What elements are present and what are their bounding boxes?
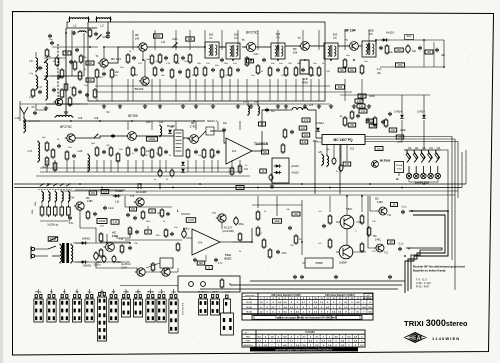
t14 to psu wire (80, 210, 96, 243)
connector 15 V (210, 295, 219, 316)
resistor R75 (384, 118, 388, 128)
fm pull wire 3 (175, 121, 177, 130)
coil L2 (96, 18, 112, 19)
drop wire 7 (175, 79, 177, 101)
capacitor det1 (379, 46, 383, 50)
IF rail mid (95, 91, 330, 93)
svg-text:FM (ohne Signal U=/133V): FM (ohne Signal U=/133V) (325, 294, 354, 297)
fuse diagonal (49, 237, 58, 242)
trimmer L6 slug (44, 59, 48, 63)
connector MNEM (146, 295, 155, 323)
svg-text:LP: LP (165, 270, 168, 272)
pullup wire 9 (277, 30, 279, 50)
F8 winding segment 1 (176, 132, 182, 134)
fuse 20mA (48, 237, 58, 241)
lamp L5 (435, 173, 440, 178)
svg-text:100u: 100u (377, 149, 383, 151)
svg-text:L16: L16 (15, 116, 20, 120)
capacitor C27 (194, 150, 198, 154)
capacitor C60 (38, 90, 42, 94)
F8 winding segment 3 (176, 139, 182, 141)
drop wire 1 (96, 79, 98, 101)
connector feed 7 (113, 289, 115, 294)
capacitor C18 (276, 68, 280, 72)
IF box inner bottom rail (20, 103, 330, 105)
drop wire 25 (361, 79, 363, 101)
connector on/off (224, 299, 231, 313)
diode AA119 b (113, 194, 121, 198)
svg-text:0A95: 0A95 (369, 95, 375, 98)
svg-text:560: 560 (338, 85, 343, 89)
bundle wire 3 (406, 248, 442, 289)
junction dot 12 (353, 59, 355, 61)
reg out (116, 230, 130, 238)
coil L16 (24, 118, 26, 134)
junction dot 9 (277, 59, 279, 61)
lamp L2 (414, 173, 419, 178)
resistor R59 (256, 210, 260, 221)
svg-text:220uA: 220uA (396, 164, 403, 167)
svg-text:1N914: 1N914 (394, 110, 402, 114)
lamp L1 (406, 173, 411, 178)
resistor 100 b (130, 207, 137, 211)
IF transformer F2 (226, 43, 240, 59)
resistor R51 (343, 116, 347, 127)
svg-text:AA119: AA119 (115, 190, 123, 193)
capacitor 0,22u (103, 206, 107, 210)
junction dot 10 (304, 59, 306, 61)
svg-text:L18: L18 (94, 116, 99, 120)
wire L8 rail (35, 52, 37, 56)
junction dot 15 (443, 66, 445, 68)
transistor T2 (137, 43, 147, 51)
capacitor C56 (135, 230, 139, 234)
resistor 220 7,5W box (395, 162, 404, 173)
resistor R11 (126, 53, 130, 64)
svg-text:1A (B): 1A (B) (246, 301, 252, 304)
resistor R79 (31, 88, 35, 98)
junction dot 11 (330, 59, 332, 61)
cap in filter box 2 (201, 282, 206, 287)
signal path F8-T9 (183, 137, 189, 139)
resistor R54 (141, 210, 145, 220)
capacitor C51 (50, 41, 54, 45)
junction dot 16 (23, 120, 25, 122)
coil osc small (78, 31, 88, 32)
wire T1 emitter (103, 67, 105, 70)
svg-text:0,22u: 0,22u (108, 208, 114, 210)
fm drop wire 19 (211, 160, 213, 172)
fm bottom rail 3 (40, 167, 230, 169)
wire F1-F2 link (219, 46, 226, 48)
main tuner bus (25, 120, 205, 122)
wire vol rail (125, 239, 182, 241)
tuning unit lead 5 (67, 201, 69, 205)
svg-text:2A (B): 2A (B) (246, 306, 252, 309)
driver box R5a (160, 258, 173, 268)
coil L8 (36, 57, 38, 73)
resistor R36 (53, 161, 57, 172)
transformer TR1 secondary (71, 244, 73, 264)
svg-text:1M: 1M (392, 204, 395, 207)
svg-text:6,8u: 6,8u (69, 223, 74, 225)
wire tuner riser (19, 101, 21, 121)
capacitor C33 (93, 212, 97, 216)
junction dot 21 (193, 120, 195, 122)
air coil L23 (292, 107, 308, 110)
junction dot 29 (257, 187, 259, 189)
svg-text:100n: 100n (396, 50, 402, 52)
svg-text:BF195: BF195 (128, 114, 138, 118)
svg-text:T13: T13 (130, 195, 135, 198)
junction dot 18 (99, 120, 101, 122)
resistor 150 (348, 123, 356, 127)
svg-text:3A AFMst: 3A AFMst (243, 344, 253, 347)
connector feed 5 (89, 289, 91, 294)
coil L9 (36, 75, 38, 91)
electrolytic 1u fm2 (170, 169, 174, 178)
drop wire 3 (127, 79, 129, 101)
wire mid h (252, 204, 302, 206)
pullup wire 8 (257, 30, 259, 50)
capacitor C7 (85, 93, 89, 97)
junction dot 31 (329, 187, 331, 189)
transistor T5 BF273C (244, 42, 255, 51)
resistor OA6 box (147, 137, 158, 141)
svg-text:T14: T14 (70, 197, 75, 200)
fm drop wire 13 (151, 160, 153, 172)
resistor 50k (86, 61, 94, 65)
resistor R45 (186, 148, 190, 159)
svg-text:+9V: +9V (238, 187, 243, 190)
driver wires (146, 263, 160, 268)
svg-text:L17: L17 (28, 149, 33, 153)
bus line 1 (14, 183, 466, 185)
fm drop wire 11 (135, 160, 137, 172)
junction dot 17 (70, 120, 72, 122)
junction dot 33 (401, 187, 403, 189)
wire mains b (35, 255, 48, 257)
resistor 1M a (391, 203, 398, 207)
resistor 40n a (338, 68, 346, 72)
diode BA fm2 (181, 169, 185, 173)
wire below MC 1 (326, 145, 328, 156)
trimmer 4/25 (97, 35, 102, 40)
junction dot 32 (369, 183, 371, 185)
drop wire 17 (269, 79, 271, 101)
svg-text:1N4001: 1N4001 (82, 238, 91, 241)
resistor 01 box (247, 59, 254, 63)
svg-text:0,1u: 0,1u (402, 206, 407, 209)
capacitor C28 (216, 150, 220, 154)
psu rail bot (75, 261, 130, 263)
svg-text:AA119: AA119 (386, 31, 395, 35)
wire det v3 (443, 40, 445, 67)
fm drop wire 1 (46, 160, 48, 172)
tuning gang dashed (38, 189, 72, 191)
resistor R6 (60, 88, 64, 99)
wire L8 join (36, 104, 46, 110)
svg-text:SFE10,7: SFE10,7 (207, 119, 218, 123)
resistor 45k (93, 88, 97, 99)
wire antenna bus (24, 121, 25, 129)
connector feed 11 (161, 289, 163, 294)
wire osc h4 (50, 75, 82, 77)
drop wire 16 (257, 79, 259, 101)
connector feed 4 (76, 289, 78, 294)
connector F2 (47, 295, 56, 323)
trimmer 500z box (63, 51, 71, 55)
svg-text:L2: L2 (100, 24, 104, 28)
tuning resistor 1 (40, 205, 44, 217)
signal path F3-T5b (285, 45, 300, 47)
wire IC2 out 1 (365, 137, 452, 261)
capacitor C25 (164, 150, 168, 154)
junction dot 30 (301, 183, 303, 185)
svg-text:FMm: FMm (246, 341, 251, 343)
svg-text:T11: T11 (384, 252, 389, 255)
trimmer L3 slug (44, 76, 48, 80)
capacitor rail c3 (334, 275, 338, 279)
svg-text:1,20: 1,20 (361, 111, 366, 113)
lamp L3 (421, 173, 426, 178)
svg-text:7M56F: 7M56F (315, 262, 323, 265)
resistor R58 (238, 232, 242, 242)
electrolytic 230u (102, 255, 106, 264)
resistor 340 (186, 37, 195, 41)
junction dot 7 (232, 59, 234, 61)
ground if a (118, 104, 122, 108)
capacitor C38 (214, 258, 218, 262)
filter box above connectors (178, 276, 240, 292)
signal path SFE-IC1 (210, 131, 226, 143)
transistor T9 BF273C (188, 135, 199, 144)
svg-text:IC1: IC1 (232, 149, 237, 153)
coil L20 (160, 125, 162, 138)
fm pull wire 2 (151, 121, 153, 130)
drop wire 23 (318, 79, 320, 101)
resistor 800 (197, 261, 205, 265)
capacitor C57 (170, 232, 174, 236)
F8 winding segment 6 (176, 150, 182, 152)
svg-text:0A642: 0A642 (149, 138, 156, 141)
label gang (35, 201, 37, 207)
resistor R42 (141, 146, 145, 157)
IF transformer F6 (362, 41, 376, 57)
resistor R77 (164, 228, 168, 238)
connector relay (169, 295, 178, 334)
svg-text:HEA: HEA (409, 336, 421, 342)
svg-text:149C: 149C (375, 237, 381, 241)
drop wire 6 (159, 79, 161, 101)
drop wire 24 (344, 79, 346, 101)
junction dot 38 (129, 242, 131, 244)
transformer TR1 primary (60, 244, 62, 264)
resistor R26 (268, 66, 272, 77)
label gang2 (32, 209, 34, 215)
drop wire 18 (277, 79, 279, 101)
resistor R43 (150, 148, 154, 159)
svg-text:BF 194: BF 194 (344, 29, 355, 33)
connector feed 2 (51, 289, 53, 294)
IF section box (88, 22, 325, 101)
collect rail 2 (230, 284, 402, 286)
svg-text:IC4: IC4 (198, 241, 203, 245)
svg-text:mode1: mode1 (158, 292, 166, 294)
capacitor C12 (181, 56, 185, 60)
svg-text:560: 560 (156, 34, 161, 38)
resistor R4 (73, 60, 77, 71)
drop wire 5 (151, 79, 153, 101)
resistor R72 (79, 54, 83, 64)
junction dot 24 (79, 183, 81, 185)
ground IF 10 (367, 104, 371, 108)
capacitor C2 L2foot (106, 31, 110, 35)
resistor R1 (88, 28, 92, 38)
svg-text:4,7u: 4,7u (218, 263, 223, 265)
wire psu rail (73, 242, 82, 244)
connector KEIN (133, 295, 142, 318)
fm drop wire 17 (195, 160, 197, 172)
drop wire 19 (285, 79, 287, 101)
mid column wire (257, 196, 259, 208)
fm drop wire 8 (110, 160, 112, 172)
resistor R73 (64, 82, 68, 92)
tr wires right2 (336, 251, 339, 253)
resistor 400 (292, 212, 300, 216)
junction dot 35 (447, 210, 449, 212)
ceramic filter SFE10.7 (206, 127, 214, 135)
filter BFB455A body (300, 60, 309, 74)
resistor R55 (160, 208, 164, 218)
ground IF 6 (276, 104, 280, 108)
capacitor C10 (164, 56, 168, 60)
svg-text:AC: AC (112, 231, 116, 235)
mains switch (48, 246, 60, 256)
wire lamp feed (441, 150, 448, 256)
tuning resistor 5 (67, 205, 71, 217)
psu to reg (106, 234, 108, 243)
speaker wire (302, 262, 305, 264)
capacitor C17 (262, 58, 266, 62)
junction dot 22 (223, 130, 225, 132)
pullup wire 6 (221, 30, 223, 50)
svg-text:141B: 141B (112, 234, 118, 238)
wire L23-MC (308, 110, 322, 138)
transistor T10 BC149C (377, 207, 387, 215)
transistor T4 (53, 98, 62, 105)
resistor R23 (228, 66, 232, 77)
resistor R40 (116, 152, 120, 163)
svg-text:gemessen gegen Masse mit Ins: gemessen gegen Masse mit Instrument R=10… (277, 317, 338, 320)
wire IC2 out 2 (365, 139, 455, 290)
resistor R44 (158, 146, 162, 157)
mid column wire2 (276, 196, 278, 216)
ground det box (270, 184, 274, 188)
junction dot 1 (65, 32, 67, 34)
tuning coil 4 (62, 191, 64, 203)
svg-text:KP-CL: KP-CL (35, 292, 42, 294)
junction dot 36 (404, 255, 406, 257)
power transistor TR1 right (340, 215, 354, 229)
svg-text:611C: 611C (224, 257, 232, 261)
wire osc v1 (65, 28, 67, 110)
capacitor C34 (126, 213, 130, 217)
svg-text:149C: 149C (377, 200, 383, 204)
resistor 150 dec (343, 162, 351, 166)
transistor T7 BF273C (65, 134, 75, 142)
connector feed 9 (137, 289, 139, 294)
connector feed 8 (125, 289, 127, 294)
tuning unit lead 4 (61, 201, 63, 205)
electrolytic 2300u (94, 251, 99, 261)
pullup wire 5 (204, 30, 206, 50)
capacitor ant (33, 111, 37, 115)
wire below MC 4 (346, 145, 348, 162)
ground IF 9 (352, 104, 356, 108)
resistor 30k (425, 50, 433, 54)
connector KW (109, 295, 118, 323)
svg-text:on/off: on/off (224, 292, 230, 294)
resistor R61 (262, 238, 266, 249)
svg-text:T17: T17 (212, 212, 217, 215)
resistor 1,20 (359, 109, 367, 113)
electrolytic 330u (234, 216, 239, 226)
signal path T5-F3 (256, 46, 271, 48)
ground if d (236, 104, 240, 108)
resistor 1,3k dec2 (369, 124, 377, 128)
resistor R81 (99, 248, 103, 258)
capacitor rail c1 (293, 275, 297, 279)
wire out stage mid (346, 229, 348, 245)
coil L1 end bars (70, 17, 89, 23)
junction dot 39 (183, 228, 185, 230)
resistor R3 (60, 68, 64, 79)
resistor 8,2k (300, 140, 308, 144)
wire out pair (145, 271, 162, 273)
fm drop wire 4 (73, 160, 75, 172)
coil L24 (322, 154, 324, 167)
svg-text:0,1u: 0,1u (377, 69, 382, 71)
connector P1 (60, 295, 69, 323)
fm drop wire 9 (117, 160, 119, 172)
junction dot 27 (172, 187, 174, 189)
resistor 1k b (149, 209, 156, 213)
resistor R2 (55, 56, 59, 67)
wire L arrow (181, 213, 190, 215)
svg-text:L11: L11 (161, 40, 166, 44)
bundle wire 1 (405, 211, 448, 293)
resistor R41 (126, 146, 130, 157)
tuning coil 1 (42, 191, 44, 203)
signal path T1-T2 (108, 47, 139, 63)
resistor R74 (350, 110, 354, 120)
ground IF 7 (303, 104, 307, 108)
agc wire (124, 196, 126, 207)
drop wire 4 (132, 79, 134, 101)
coil L12 (248, 105, 249, 116)
wire osc h4b (44, 75, 84, 77)
capacitor C20 (57, 144, 61, 148)
tuning arrow 2 (46, 183, 50, 186)
transistor T18 (135, 268, 145, 276)
capacitor C23 (111, 134, 115, 138)
measurement table 1 (242, 293, 373, 320)
junction dot 34 (423, 183, 425, 185)
tuning coil 5 (68, 191, 70, 203)
drop wire 14 (237, 79, 239, 101)
transistor T3 (139, 77, 149, 85)
